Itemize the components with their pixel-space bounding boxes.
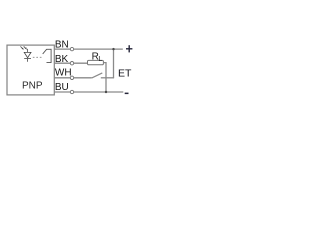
wire from RL down to BU: [103, 63, 106, 92]
terminal circle BK: [70, 62, 73, 65]
resistor RL body: [88, 60, 104, 64]
label minus: [125, 93, 129, 95]
light arrow 2: [24, 46, 27, 50]
wire BU: [55, 91, 124, 93]
wire WH: [55, 77, 92, 79]
photodiode D1: [24, 49, 31, 62]
wire WH right segment: [101, 77, 114, 79]
terminal circle BN: [70, 47, 73, 50]
junction on BN: [112, 48, 114, 50]
output switch contact bottom: [47, 62, 52, 64]
wire BN: [55, 48, 123, 50]
terminal circle BU: [70, 90, 73, 93]
svg-text:BU: BU: [55, 82, 69, 93]
light arrow 1: [21, 46, 24, 50]
label plus: [126, 45, 132, 52]
output switch contact top: [47, 48, 52, 50]
test switch blade on WH: [92, 73, 103, 78]
terminal circle WH: [70, 76, 73, 79]
wire BK: [55, 62, 88, 64]
svg-text:L: L: [98, 56, 102, 63]
dashed actuation line: [33, 56, 44, 58]
svg-text:PNP: PNP: [22, 81, 43, 92]
output switch contact right: [50, 49, 52, 63]
output switch blade: [43, 49, 47, 54]
sensor box PNP: [7, 45, 54, 95]
svg-text:WH: WH: [55, 67, 72, 78]
junction on BU: [105, 91, 107, 93]
wire vertical from BN to WH: [113, 49, 115, 78]
svg-text:ET: ET: [118, 67, 132, 79]
